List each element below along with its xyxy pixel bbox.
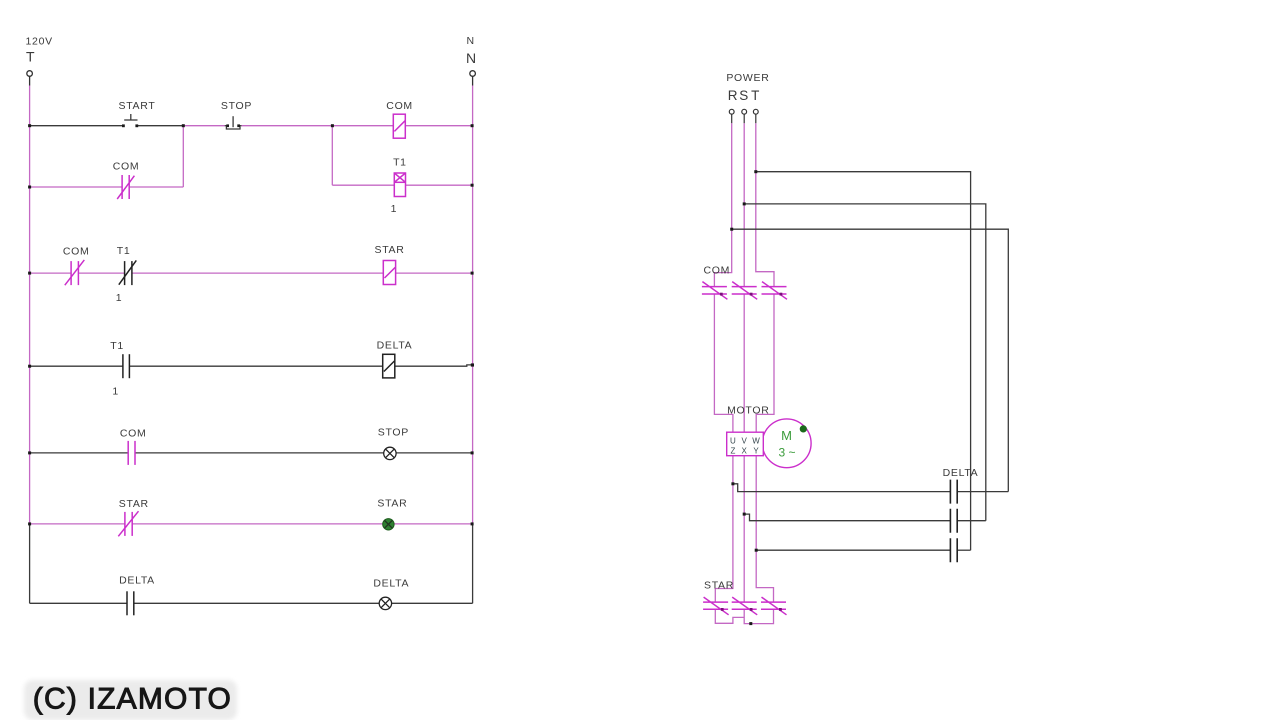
svg-text:STAR: STAR <box>119 498 149 510</box>
svg-text:DELTA: DELTA <box>943 467 979 479</box>
svg-text:COM: COM <box>113 161 140 173</box>
svg-text:N: N <box>466 50 476 66</box>
svg-text:(C) IZAMOTO: (C) IZAMOTO <box>33 683 232 716</box>
svg-text:3 ~: 3 ~ <box>778 446 795 460</box>
svg-text:S: S <box>739 88 748 103</box>
svg-text:STAR: STAR <box>377 498 407 510</box>
svg-text:Z: Z <box>730 447 735 456</box>
svg-text:1: 1 <box>391 203 398 215</box>
svg-text:T1: T1 <box>393 156 407 168</box>
svg-text:120V: 120V <box>26 36 53 48</box>
svg-text:U: U <box>730 437 736 446</box>
svg-text:MOTOR: MOTOR <box>727 405 769 417</box>
svg-text:N: N <box>467 35 475 47</box>
svg-text:DELTA: DELTA <box>373 578 409 590</box>
svg-text:COM: COM <box>120 427 147 439</box>
svg-text:STAR: STAR <box>704 579 734 591</box>
svg-text:START: START <box>119 100 156 112</box>
svg-text:T: T <box>26 49 35 65</box>
svg-text:DELTA: DELTA <box>119 575 155 587</box>
svg-text:COM: COM <box>63 246 90 258</box>
svg-text:V: V <box>742 437 748 446</box>
svg-text:X: X <box>742 447 748 456</box>
svg-text:STOP: STOP <box>221 100 252 112</box>
svg-text:1: 1 <box>116 292 123 304</box>
svg-text:STOP: STOP <box>378 426 409 438</box>
svg-text:Y: Y <box>753 447 759 456</box>
svg-text:STAR: STAR <box>374 244 404 256</box>
svg-text:COM: COM <box>386 100 413 112</box>
svg-text:1: 1 <box>112 386 119 398</box>
svg-text:T: T <box>751 88 759 103</box>
svg-text:R: R <box>728 88 738 103</box>
svg-text:POWER: POWER <box>726 72 769 84</box>
svg-text:COM: COM <box>704 264 731 276</box>
svg-text:M: M <box>781 428 792 443</box>
svg-text:DELTA: DELTA <box>377 340 413 352</box>
svg-text:W: W <box>752 437 760 446</box>
svg-text:T1: T1 <box>110 340 124 352</box>
svg-text:T1: T1 <box>117 245 131 257</box>
